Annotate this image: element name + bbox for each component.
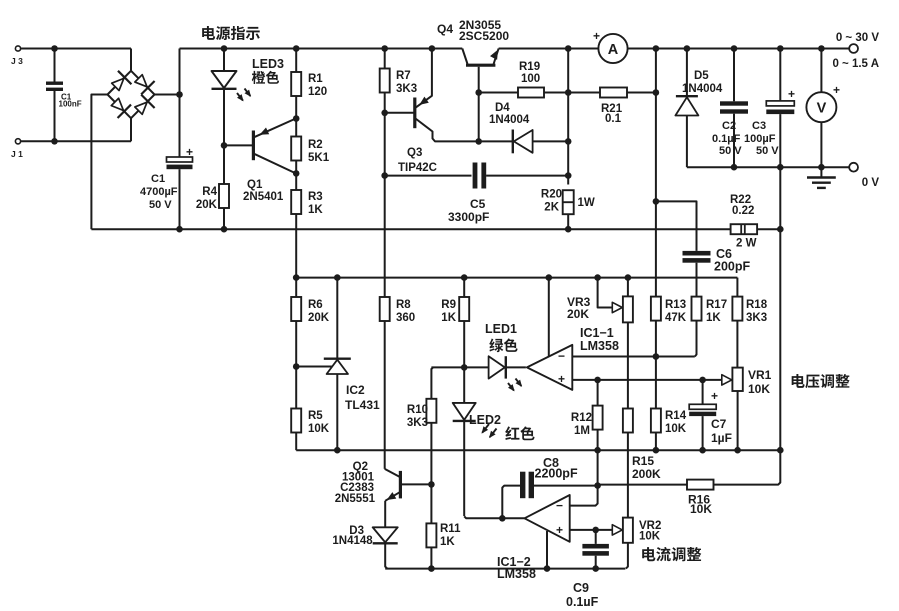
svg-text:+: + — [556, 523, 563, 537]
junction dot C9 plus-input — [592, 527, 599, 534]
svg-text:+: + — [833, 83, 840, 97]
svg-text:+: + — [711, 389, 718, 403]
svg-text:360: 360 — [396, 312, 415, 324]
junction dot C6 branch — [653, 198, 660, 205]
svg-text:LED1: LED1 — [485, 322, 517, 336]
junction dot R13/R14 inverting node — [653, 353, 660, 360]
junction dot VR1 bottom rail — [734, 447, 741, 454]
svg-text:R5: R5 — [308, 410, 323, 422]
wire IC1-2 non-inverting input — [570, 529, 612, 531]
ammeter A — [593, 29, 628, 63]
transistor Q2 13001/C2383/2N5551 — [335, 461, 430, 527]
svg-text:3K3: 3K3 — [396, 83, 417, 95]
bridge diode top-left — [112, 71, 132, 91]
wire V+ node up to top rail — [180, 49, 182, 95]
bridge diode top-right — [135, 75, 155, 95]
wire R7 node down to C5 node — [384, 113, 386, 176]
resistor R4 20K — [196, 145, 229, 229]
junction dot C7 bottom rail — [699, 447, 706, 454]
svg-text:0 ~ 1.5 A: 0 ~ 1.5 A — [832, 58, 879, 70]
junction dot x568/D4 — [565, 138, 572, 145]
svg-text:D4: D4 — [495, 102, 510, 114]
wire top rail left segment — [180, 48, 463, 50]
junction dot IC2 bottom rail — [334, 447, 341, 454]
junction dot x568 top rail — [565, 45, 572, 52]
diode D3 1N4148 — [332, 525, 397, 569]
label voltage adjust 电压调整 — [792, 374, 850, 388]
bridge diode bottom-left — [111, 98, 131, 118]
svg-text:100: 100 — [521, 73, 540, 85]
svg-text:1K: 1K — [308, 204, 323, 216]
junction dot x656 top rail — [653, 45, 660, 52]
svg-text:20K: 20K — [567, 307, 589, 321]
svg-text:R14: R14 — [665, 410, 687, 422]
wire sense line R22 to bottom rail — [779, 229, 781, 450]
op-amp IC1-1 LM358 — [527, 326, 619, 390]
capacitor C1 100nF — [46, 49, 82, 142]
junction dot R22 right / sense line — [777, 226, 784, 233]
junction dot D5 top rail — [684, 45, 691, 52]
junction dot C8 tap on output — [499, 515, 506, 522]
svg-text:IC1−1: IC1−1 — [580, 326, 614, 340]
capacitor C3 100uF 50V — [744, 49, 795, 168]
svg-text:0.22: 0.22 — [732, 205, 754, 217]
junction dot Q4 base / Q3 collector / D4 — [475, 138, 482, 145]
svg-text:VR1: VR1 — [748, 368, 772, 382]
resistor R6 20K — [291, 278, 330, 367]
svg-text:3K3: 3K3 — [407, 417, 428, 429]
resistor R2 5K1 — [291, 119, 330, 174]
svg-text:R3: R3 — [308, 191, 323, 203]
label LED1 — [485, 322, 517, 336]
potentiometer VR3 20K — [567, 278, 633, 409]
svg-text:LED3: LED3 — [252, 57, 284, 71]
svg-text:50 V: 50 V — [719, 145, 742, 157]
junction dot R20 bottom — [565, 226, 572, 233]
LED3 orange indicator — [212, 49, 252, 146]
junction dot R12 plus-input — [594, 377, 601, 384]
label LED2 — [469, 413, 501, 427]
wire IC1-1 non-inverting input line — [572, 379, 722, 381]
wire node line x656 — [655, 49, 657, 297]
svg-text:R20: R20 — [541, 189, 562, 201]
label power indicator 电源指示 — [202, 26, 260, 40]
wire opamp top rail — [296, 277, 737, 279]
junction dot bridge output — [176, 91, 183, 98]
junction dot R2/R3/Q1 collector — [293, 170, 300, 177]
junction dot R3/R6 rail — [293, 274, 300, 281]
junction dot C2 bottom — [731, 164, 738, 171]
svg-text:C3: C3 — [752, 120, 766, 132]
svg-text:1K: 1K — [440, 536, 455, 548]
junction dot C8/R16/inverting node — [594, 482, 601, 489]
svg-text:2N5551: 2N5551 — [335, 493, 376, 505]
svg-text:V: V — [817, 101, 827, 117]
svg-text:R8: R8 — [396, 299, 411, 311]
junction dot R1 top rail — [293, 45, 300, 52]
svg-text:R15: R15 — [632, 454, 654, 468]
resistor R8 360 — [380, 176, 415, 469]
svg-text:4700µF: 4700µF — [140, 186, 178, 198]
resistor R5 10K — [291, 367, 330, 451]
svg-text:R19: R19 — [519, 61, 540, 73]
junction dot J1/C1 — [51, 138, 58, 145]
junction dot LED3/R4/Q1 base — [221, 142, 228, 149]
transistor Q3 TIP42C — [385, 49, 477, 175]
svg-text:R17: R17 — [706, 299, 727, 311]
svg-text:R9: R9 — [441, 299, 456, 311]
resistor R10 3K3 — [407, 367, 437, 484]
svg-text:100µF: 100µF — [744, 133, 776, 145]
junction dot R4 bottom — [221, 226, 228, 233]
bridge diode bottom-right — [135, 95, 155, 115]
svg-text:C9: C9 — [573, 581, 589, 595]
terminal output positive 0-30V — [832, 32, 879, 70]
svg-text:J 3: J 3 — [11, 56, 23, 66]
wire 0V rail — [687, 166, 849, 168]
svg-text:50 V: 50 V — [149, 199, 172, 211]
svg-text:LM358: LM358 — [497, 567, 536, 581]
resistor R15 200K — [623, 409, 661, 518]
wire IC1-1 V+ pin — [548, 278, 550, 357]
label LED2 colour 红色 — [505, 426, 534, 440]
wire sense to R16 — [714, 450, 781, 484]
transistor Q4 2N3055/2SC5200 — [437, 18, 509, 141]
capacitor C8 2200pF — [502, 456, 597, 518]
capacitor C2 0.1uF 50V — [712, 49, 748, 168]
junction dot Q2 base / R10 / R11 — [428, 481, 435, 488]
label LED3 — [252, 57, 284, 71]
label LED3 colour 橙色 — [252, 71, 279, 84]
svg-text:50 V: 50 V — [756, 145, 779, 157]
terminal J3 — [11, 46, 23, 66]
label LED1 colour 绿色 — [489, 338, 517, 352]
voltmeter V — [806, 49, 840, 168]
svg-text:0.1µF: 0.1µF — [712, 133, 741, 145]
junction dot C5 left / R8 line — [381, 172, 388, 179]
junction dot R21 right — [653, 89, 660, 96]
svg-text:5K1: 5K1 — [308, 152, 330, 164]
svg-text:10K: 10K — [639, 531, 661, 543]
svg-text:2K: 2K — [544, 202, 559, 214]
junction dot LED3 top rail — [221, 45, 228, 52]
potentiometer VR2 10K — [612, 518, 661, 569]
LED1 green — [489, 356, 526, 391]
svg-text:R12: R12 — [571, 412, 592, 424]
resistor R3 1K — [291, 173, 323, 277]
svg-text:R10: R10 — [407, 404, 428, 416]
svg-text:C2: C2 — [722, 120, 736, 132]
junction dot C9 bottom rail — [592, 565, 599, 572]
svg-text:0 V: 0 V — [862, 177, 880, 189]
capacitor C6 200pF — [656, 201, 751, 296]
wire IC1-2 V- pin — [546, 531, 548, 569]
svg-text:1N4004: 1N4004 — [682, 83, 723, 95]
svg-text:1N4148: 1N4148 — [332, 535, 373, 547]
shunt regulator IC2 TL431 — [296, 278, 380, 451]
svg-text:3K3: 3K3 — [746, 312, 767, 324]
junction dot IC1-1 V+ rail — [546, 274, 553, 281]
svg-text:2SC5200: 2SC5200 — [459, 29, 509, 43]
svg-text:47K: 47K — [665, 312, 687, 324]
svg-text:J 1: J 1 — [11, 149, 23, 159]
svg-text:1W: 1W — [578, 197, 595, 209]
resistor R20 2K 1W — [541, 189, 595, 230]
wire rail to C8 node — [597, 450, 599, 485]
resistor R13 47K — [651, 297, 687, 357]
resistor R11 1K — [426, 484, 461, 568]
diode D5 1N4004 — [675, 49, 722, 168]
svg-text:IC2: IC2 — [346, 383, 365, 397]
svg-text:10K: 10K — [308, 423, 330, 435]
junction dot C1 bottom — [176, 226, 183, 233]
junction dot VR3 wiper rail — [594, 274, 601, 281]
junction dot R12 bottom rail — [594, 447, 601, 454]
svg-text:1K: 1K — [706, 312, 721, 324]
junction dot x568/C5 — [565, 172, 572, 179]
svg-text:10K: 10K — [748, 382, 770, 396]
wire J3 to bridge top — [21, 49, 131, 71]
resistor R22 0.22 2W — [730, 194, 780, 250]
svg-text:200K: 200K — [632, 467, 661, 481]
LED2 red — [453, 367, 497, 516]
capacitor C9 0.1uF — [566, 530, 609, 609]
svg-text:200pF: 200pF — [714, 260, 750, 274]
junction dot R9/LED1/LED2/R10 node — [461, 364, 468, 371]
svg-text:20K: 20K — [196, 199, 218, 211]
svg-text:R11: R11 — [440, 523, 461, 535]
svg-text:100nF: 100nF — [59, 100, 82, 109]
svg-text:R4: R4 — [202, 186, 217, 198]
transistor Q1 2N5401 — [224, 119, 296, 204]
svg-text:1K: 1K — [441, 312, 456, 324]
svg-text:1µF: 1µF — [711, 431, 732, 445]
wire IC1-1 inverting input line — [572, 321, 696, 357]
svg-text:+: + — [593, 29, 600, 43]
diode D4 1N4004 — [479, 102, 569, 153]
svg-text:A: A — [608, 42, 619, 58]
svg-text:R7: R7 — [396, 70, 411, 82]
svg-text:R1: R1 — [308, 73, 323, 85]
ground symbol — [807, 167, 836, 188]
junction dot C3 bottom — [777, 164, 784, 171]
junction dot sense line bottom rail — [777, 447, 784, 454]
junction dot Q3 emitter top rail — [429, 45, 436, 52]
capacitor C1 4700uF 50V — [140, 95, 193, 230]
junction dot voltmeter top rail — [818, 45, 825, 52]
svg-text:20K: 20K — [308, 312, 330, 324]
svg-text:LED2: LED2 — [469, 413, 501, 427]
junction dot R11 bottom — [428, 565, 435, 572]
label current adjust 电流调整 — [642, 547, 701, 561]
junction dot J3/C1 — [51, 45, 58, 52]
resistor R7 3K3 — [380, 49, 417, 113]
potentiometer VR1 10K — [722, 368, 772, 451]
junction dot R6/R5/IC2 ref — [293, 363, 300, 370]
svg-text:+: + — [186, 145, 193, 159]
svg-text:Q4: Q4 — [437, 22, 453, 36]
wire top rail middle segment — [499, 48, 599, 50]
svg-text:+: + — [788, 87, 795, 101]
svg-text:R13: R13 — [665, 299, 686, 311]
svg-text:LM358: LM358 — [580, 339, 619, 353]
wire IC1-2 inverting input — [570, 486, 598, 506]
wire opamp bottom rail — [296, 449, 780, 451]
svg-text:2200pF: 2200pF — [535, 467, 578, 481]
wire bridge left corner to negative rail — [91, 95, 107, 230]
capacitor C7 1uF — [689, 380, 732, 450]
svg-text:10K: 10K — [665, 423, 687, 435]
terminal output 0V — [849, 163, 879, 189]
junction dot C3 top rail — [777, 45, 784, 52]
terminal J1 — [11, 139, 23, 159]
junction dot C2 top rail — [731, 45, 738, 52]
wire sense line x568 from rail — [567, 49, 569, 185]
svg-text:R6: R6 — [308, 299, 323, 311]
svg-text:D5: D5 — [694, 70, 709, 82]
svg-text:1M: 1M — [574, 425, 590, 437]
junction dot x568/R19 — [565, 89, 572, 96]
junction dot IC2 top rail — [334, 274, 341, 281]
junction dot C7 plus-input — [699, 377, 706, 384]
svg-text:0.1µF: 0.1µF — [566, 595, 599, 606]
wire IC1-2 output to LED2 — [464, 516, 524, 518]
svg-text:2N5401: 2N5401 — [243, 191, 284, 203]
resistor R19 100 — [479, 61, 569, 98]
resistor R18 3K3 — [732, 278, 767, 368]
svg-text:−: − — [558, 349, 565, 363]
junction dot R7 top rail — [381, 45, 388, 52]
wire bridge right corner to V+ node — [155, 94, 180, 96]
svg-text:3300pF: 3300pF — [448, 210, 489, 224]
junction dot R9 top rail — [461, 274, 468, 281]
svg-text:C7: C7 — [711, 417, 727, 431]
wire top rail right segment — [628, 48, 850, 50]
svg-text:10K: 10K — [690, 502, 712, 516]
resistor R1 120 — [291, 49, 327, 119]
junction dot VR3 top rail — [625, 274, 632, 281]
svg-text:−: − — [556, 499, 563, 513]
resistor R12 1M — [571, 380, 603, 450]
bridge rectifier diamond wires — [108, 71, 155, 118]
resistor R14 10K — [651, 357, 687, 451]
svg-text:R2: R2 — [308, 139, 323, 151]
resistor R21 0.1 — [568, 88, 656, 126]
svg-text:2 W: 2 W — [736, 238, 757, 250]
svg-text:TIP42C: TIP42C — [398, 162, 437, 174]
wire bottom rail — [385, 568, 625, 570]
svg-text:120: 120 — [308, 86, 327, 98]
svg-text:1N4004: 1N4004 — [489, 114, 530, 126]
wire sense line C3 bottom to R22 — [779, 167, 781, 229]
junction dot IC1-2 V- rail — [544, 565, 551, 572]
op-amp IC1-2 LM358 — [497, 495, 570, 581]
svg-text:Q1: Q1 — [247, 179, 263, 191]
resistor R17 1K — [692, 297, 728, 324]
capacitor C5 3300pF — [385, 163, 569, 225]
svg-text:0 ~ 30 V: 0 ~ 30 V — [836, 32, 879, 44]
wire negative rail — [91, 228, 730, 230]
svg-text:R18: R18 — [746, 299, 768, 311]
svg-text:TL431: TL431 — [345, 398, 380, 412]
junction dot R7/Q3 base — [381, 110, 388, 117]
wire J1 to bridge bottom — [21, 118, 131, 141]
svg-text:C1: C1 — [151, 173, 165, 185]
resistor R9 1K — [441, 278, 469, 368]
junction dot R1/R2/Q1 emitter — [293, 115, 300, 122]
svg-text:+: + — [558, 372, 565, 386]
junction dot voltmeter bottom — [818, 164, 825, 171]
wire LED anode node — [431, 366, 488, 368]
resistor R16 10K — [598, 480, 714, 516]
junction dot R14 bottom rail — [653, 447, 660, 454]
svg-text:Q3: Q3 — [407, 147, 422, 159]
junction dot Q4 base / R19 — [475, 89, 482, 96]
svg-text:0.1: 0.1 — [605, 113, 622, 125]
svg-text:C5: C5 — [470, 197, 486, 211]
